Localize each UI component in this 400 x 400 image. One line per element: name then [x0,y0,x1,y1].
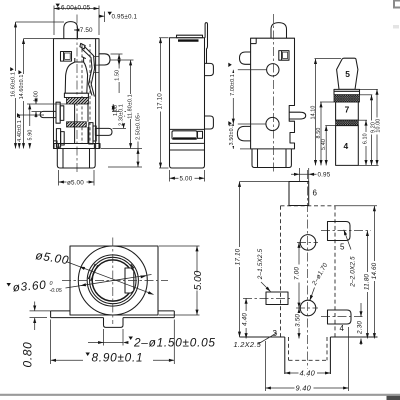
dim 5.00 right view5 [159,246,204,315]
view1 dome [64,22,78,39]
view1 contact bottle [64,58,88,98]
svg-text:1.2X2.5: 1.2X2.5 [234,340,262,349]
svg-text:14.60±0.1: 14.60±0.1 [19,75,25,100]
svg-text:3.50±0.1: 3.50±0.1 [229,124,235,146]
view1 feet bar [54,144,100,149]
svg-text:1.50: 1.50 [114,70,120,81]
view1 body [54,39,100,149]
svg-text:8.90±0.1: 8.90±0.1 [92,351,144,365]
svg-text:3: 3 [273,329,278,338]
footprint dashed body outline [281,206,336,360]
svg-text:5.40: 5.40 [321,139,327,150]
footprint row centerlines [243,231,371,317]
svg-text:0.95: 0.95 [318,172,331,179]
view1 spring arm [80,43,99,96]
view1 centerline [76,15,78,174]
dim 11.80 footprint [364,231,371,339]
svg-text:-0.05: -0.05 [50,288,63,294]
view3 bottom barrel [252,149,291,168]
view4 ring segment 7 [336,102,359,120]
svg-text:14.60: 14.60 [371,262,378,279]
dim 2.50±0.05 right [101,113,142,167]
svg-text:2–1.5X2.5: 2–1.5X2.5 [257,248,264,280]
view3 body [251,38,295,149]
frame: top-right corner box [393,1,400,29]
view5 inner circle [92,260,133,301]
dim 3.50 footprint [295,308,302,339]
pad 6 [289,182,318,206]
dim 1.00 left [27,91,67,117]
callout 1.2X2.5 [234,333,278,349]
view1 lower hatched band [67,122,87,127]
pad 5 [328,222,351,252]
dim 1.00 right [112,104,119,116]
view5 contact strip [88,264,97,281]
view5 wings [51,311,175,318]
view2 side bump upper [205,63,214,75]
svg-text:2.30: 2.30 [357,321,364,335]
svg-text:17.10: 17.10 [234,248,241,265]
view4 bottom extension line [358,164,378,166]
svg-text:4: 4 [344,141,349,151]
view4 hatch band lower [336,120,359,125]
view1 phantom dashed verticals [82,44,90,143]
view1 washer hatched [67,98,89,105]
dim 4.40 bottom footprint [285,369,331,378]
view1 square detail [61,52,72,62]
svg-text:8.50: 8.50 [316,128,322,139]
callout 2-ø1.70 [308,262,329,301]
svg-text:7.50: 7.50 [80,27,93,34]
dim 1.50 right [111,54,134,93]
view2 top hook [205,23,207,64]
dim 2-ø1.50±0.05 view5 [88,329,216,350]
svg-text:2.30±0.1: 2.30±0.1 [118,104,124,126]
svg-text:3.50: 3.50 [295,314,302,327]
footprint center column line [307,170,309,377]
dim 0.80 view5 [21,302,51,368]
callout 2-1.5X2.5 [257,248,271,292]
view4 sleeve segment 4 [336,126,359,166]
svg-text:11.80±0.1: 11.80±0.1 [127,94,133,118]
svg-text:6.10: 6.10 [363,133,369,144]
view5 outer circle [78,246,147,315]
dim 3.50±0.1 view3 [228,121,252,149]
svg-text:4.40±0.1: 4.40±0.1 [17,120,23,142]
hole lower [300,300,316,316]
footprint board edge line [240,337,378,374]
pad 4 [328,310,352,333]
view3 hole lower [266,117,279,130]
view5 ring circles [87,255,138,306]
dim 5.90 left [27,104,34,149]
view3 dome [271,23,287,39]
dim 8.90±0.1 view5 [51,320,175,365]
pad 3 [266,292,288,338]
dim 4.40 left footprint [241,298,248,338]
view1 right pin [89,123,112,144]
frame: bottom border line [0,395,400,400]
svg-text:6.00±0.05: 6.00±0.05 [61,5,91,12]
svg-text:5.00: 5.00 [193,270,204,290]
view2 lower lines [170,143,205,150]
dim 11.80±0.1 right [127,60,133,149]
svg-text:0.80: 0.80 [21,342,35,368]
dim 4.40±0.1 left [16,113,44,148]
dim 16.60±0.1 left [10,22,64,149]
dim 17.10 view2 [156,38,168,168]
dim 6.10 view4 [358,120,369,165]
dim 14.60±0.1 left [18,39,53,149]
view4 plug tip segment 5 [337,58,358,89]
svg-text:10.00: 10.00 [376,119,382,133]
view5 notch detail [125,264,134,293]
dim 10.00 view4 [360,89,382,165]
callout 2-2.0X2.5 [342,229,356,287]
view1 left pin [40,102,64,123]
dim 8.50 view4 [316,102,334,165]
view1 lower-left bracket [54,129,65,149]
dim 17.10 footprint [234,182,289,338]
svg-text:6: 6 [313,189,318,198]
dim 2.30±0.1 right [112,104,126,128]
dim 5.40 view4 [321,126,336,166]
view5 bottom tab [104,318,124,328]
svg-text:9.40: 9.40 [296,384,312,393]
view5 centerlines [62,238,168,325]
view3 left ear bottom [237,126,250,140]
dim 0.95 between views [291,168,331,182]
svg-text:4.40: 4.40 [241,313,248,326]
dim 9.20 view4 [360,95,377,166]
dim 7.00±0.1 view3 [228,63,266,124]
svg-text:4.40: 4.40 [300,369,316,378]
svg-text:5.00: 5.00 [180,176,193,183]
view3 hole upper [267,64,279,76]
svg-text:7: 7 [345,105,350,115]
svg-text:0: 0 [50,281,53,287]
dim ø5.00 leader view5 [35,248,155,296]
dim 5.00 view2 [170,170,205,183]
svg-text:4: 4 [340,324,345,333]
view1 inner sleeve lines [75,104,88,144]
svg-text:16.60±0.1: 16.60±0.1 [11,72,17,97]
view2 body [170,38,205,168]
svg-text:ø3.60: ø3.60 [12,278,47,295]
view3 square detail [279,51,289,61]
view2 bottom pocket [170,129,205,139]
view3 left ear top [240,52,251,64]
view4 hatch band upper [334,95,360,102]
view1 top right pin [99,54,110,65]
svg-text:2.50±0.05: 2.50±0.05 [136,115,142,140]
view3 centerline [272,14,274,172]
dim 7.00 footprint [293,243,300,309]
dim 0.95±0.1 [99,12,138,23]
dim 9.40 bottom footprint [266,327,349,393]
view2 top plate [177,35,203,40]
view1 bottom cylinder [57,149,95,169]
svg-text:2–2.0X2.5: 2–2.0X2.5 [349,256,356,288]
svg-text:5.90: 5.90 [28,130,34,141]
view3 right pin [289,112,306,119]
svg-text:5: 5 [340,243,345,252]
view2 side bump lower [205,116,214,129]
view3 corner step [251,38,257,43]
hole upper [300,235,316,251]
svg-text:ø5.00: ø5.00 [67,179,84,186]
svg-text:7.00: 7.00 [293,267,300,280]
svg-text:11.80: 11.80 [364,274,371,291]
dim 2.30 footprint [357,303,364,345]
svg-text:5: 5 [345,69,350,79]
dim 7.50 [74,27,93,34]
svg-text:0.95±0.1: 0.95±0.1 [112,14,138,21]
dim 6.00±0.05 [54,4,99,35]
dim ø5.00 bottom [59,170,95,186]
dim 14.60 footprint [335,206,378,339]
view4 neck ring [334,89,360,94]
dim ø3.60 leader view5 [7,274,152,294]
dim 14.10 view4 [311,59,342,166]
svg-text:7.00±0.1: 7.00±0.1 [230,74,236,96]
svg-text:1.00: 1.00 [33,91,39,102]
svg-text:17.10: 17.10 [156,93,163,110]
svg-text:14.10: 14.10 [311,106,317,120]
view5 body [70,246,158,315]
